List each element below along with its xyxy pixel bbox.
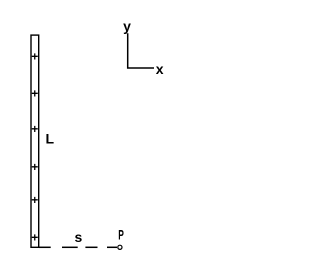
svg-text:P: P: [118, 227, 124, 243]
dashed line segment 3: [85, 246, 97, 248]
svg-text:+: +: [31, 231, 38, 245]
rod (charged line of length L): [31, 35, 39, 247]
svg-text:+: +: [31, 49, 38, 63]
dashed line segment 4: [107, 246, 117, 248]
dashed line segment 1: [39, 246, 51, 248]
svg-text:+: +: [31, 193, 38, 207]
svg-text:s: s: [75, 229, 83, 245]
svg-text:+: +: [31, 160, 38, 174]
svg-text:x: x: [156, 61, 164, 77]
svg-text:L: L: [46, 131, 55, 147]
point P circle: [118, 245, 122, 249]
dashed line segment 2: [62, 246, 78, 248]
axes: [128, 33, 154, 68]
svg-text:+: +: [31, 86, 38, 100]
svg-text:y: y: [123, 18, 131, 34]
svg-text:+: +: [31, 122, 38, 136]
